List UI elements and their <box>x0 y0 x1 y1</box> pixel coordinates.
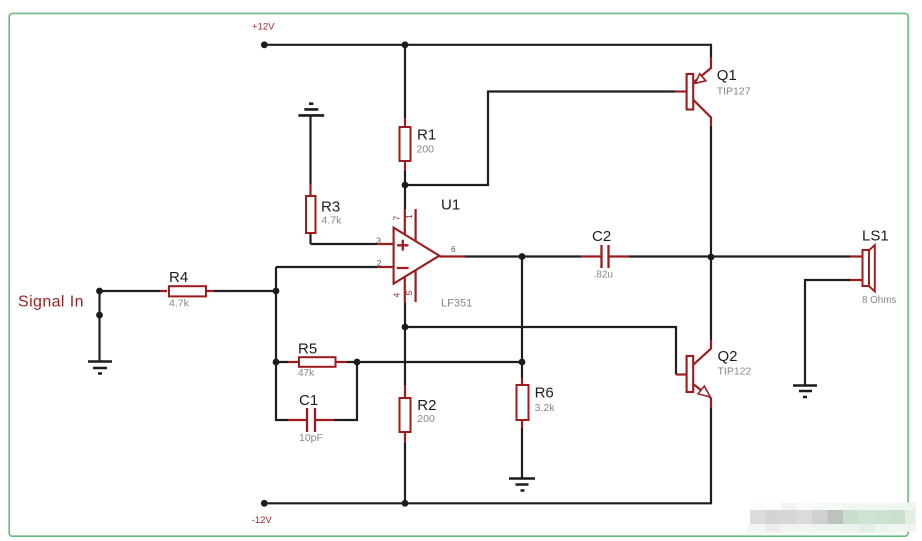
svg-text:.82u: .82u <box>594 270 613 281</box>
svg-text:R4: R4 <box>169 269 188 286</box>
svg-text:4: 4 <box>391 293 401 298</box>
svg-text:5: 5 <box>404 291 414 296</box>
svg-text:R1: R1 <box>417 127 436 144</box>
svg-text:C1: C1 <box>299 392 318 409</box>
svg-text:R6: R6 <box>535 385 554 402</box>
svg-text:3.2k: 3.2k <box>535 402 556 414</box>
svg-text:4.7k: 4.7k <box>322 215 343 227</box>
svg-text:R5: R5 <box>298 341 317 358</box>
svg-text:6: 6 <box>451 244 456 254</box>
svg-text:3: 3 <box>376 236 381 246</box>
svg-text:R3: R3 <box>321 199 340 216</box>
svg-text:+12V: +12V <box>252 22 275 33</box>
svg-text:U1: U1 <box>441 197 460 214</box>
svg-text:7: 7 <box>391 216 401 221</box>
svg-text:2: 2 <box>377 258 382 268</box>
svg-text:8 Ohms: 8 Ohms <box>862 295 896 306</box>
svg-text:200: 200 <box>417 413 435 425</box>
svg-text:47k: 47k <box>298 368 315 379</box>
svg-text:LS1: LS1 <box>862 228 889 245</box>
svg-text:4.7k: 4.7k <box>169 298 190 310</box>
svg-text:Signal In: Signal In <box>18 293 84 310</box>
svg-text:R2: R2 <box>417 397 436 414</box>
svg-text:1: 1 <box>404 214 414 219</box>
svg-text:Q1: Q1 <box>717 67 737 84</box>
svg-text:-12V: -12V <box>252 515 273 526</box>
svg-text:C2: C2 <box>592 228 611 245</box>
svg-text:200: 200 <box>417 144 435 156</box>
svg-text:LF351: LF351 <box>441 298 472 310</box>
svg-text:TIP127: TIP127 <box>717 86 751 98</box>
svg-text:TIP122: TIP122 <box>718 366 752 378</box>
svg-text:Q2: Q2 <box>718 348 738 365</box>
svg-text:10pF: 10pF <box>299 432 323 444</box>
